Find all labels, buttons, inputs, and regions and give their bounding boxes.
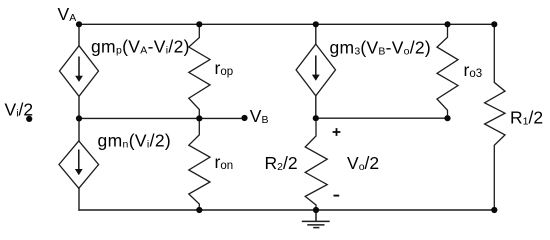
node top of r_op — [196, 21, 202, 27]
resistor R1/2 body — [485, 24, 505, 210]
wire gmp bottom to middle node — [78, 96, 80, 118]
node ground junction — [313, 207, 319, 213]
node top of R1/2 — [491, 21, 497, 27]
node Vi/2 input terminal — [26, 116, 32, 122]
svg-text:Vi/2: Vi/2 — [5, 99, 34, 119]
dependent current source gm_n (diamond with down arrow) — [59, 141, 99, 188]
svg-text:gmn(Vi/2): gmn(Vi/2) — [98, 131, 172, 151]
wire top rail — [79, 23, 494, 25]
node middle r_op/r_on junction — [196, 115, 202, 121]
wire VA node to gmp top — [78, 24, 80, 45]
node top of r_o3 — [444, 21, 450, 27]
resistor R2/2 body — [305, 118, 327, 210]
wire middle rail right (gm3 bottom to ro3 bottom) — [316, 117, 448, 119]
node gm3/R2 junction — [313, 115, 319, 121]
node VA (top of left branch) — [76, 21, 82, 27]
node bottom of r_o3 — [444, 115, 450, 121]
wire gm3 top lead — [315, 24, 317, 44]
dependent current source gm_p (diamond with down arrow) — [60, 46, 99, 97]
minus sign (Vo/2 polarity) — [334, 195, 340, 197]
node VB terminal — [241, 115, 247, 121]
node middle left branch — [76, 115, 82, 121]
plus sign (Vo/2 polarity) — [333, 128, 341, 136]
node top of gm3 — [313, 21, 319, 27]
resistor r_o3 body — [437, 24, 458, 118]
resistor r_on body — [189, 118, 210, 210]
wire gm3 bottom lead — [315, 96, 317, 118]
wire middle rail left (node VA column to VB terminal) — [79, 117, 245, 119]
node bottom of R1/2 — [491, 207, 497, 213]
dependent current source gm_3 (diamond with down arrow) — [296, 44, 335, 96]
wire gmn bottom to bottom rail — [78, 188, 80, 210]
wire bottom rail — [79, 209, 494, 211]
wire middle node to gmn top — [78, 118, 80, 140]
resistor r_op body — [189, 24, 210, 118]
ground symbol — [302, 210, 330, 228]
node bottom of r_on — [196, 207, 202, 213]
